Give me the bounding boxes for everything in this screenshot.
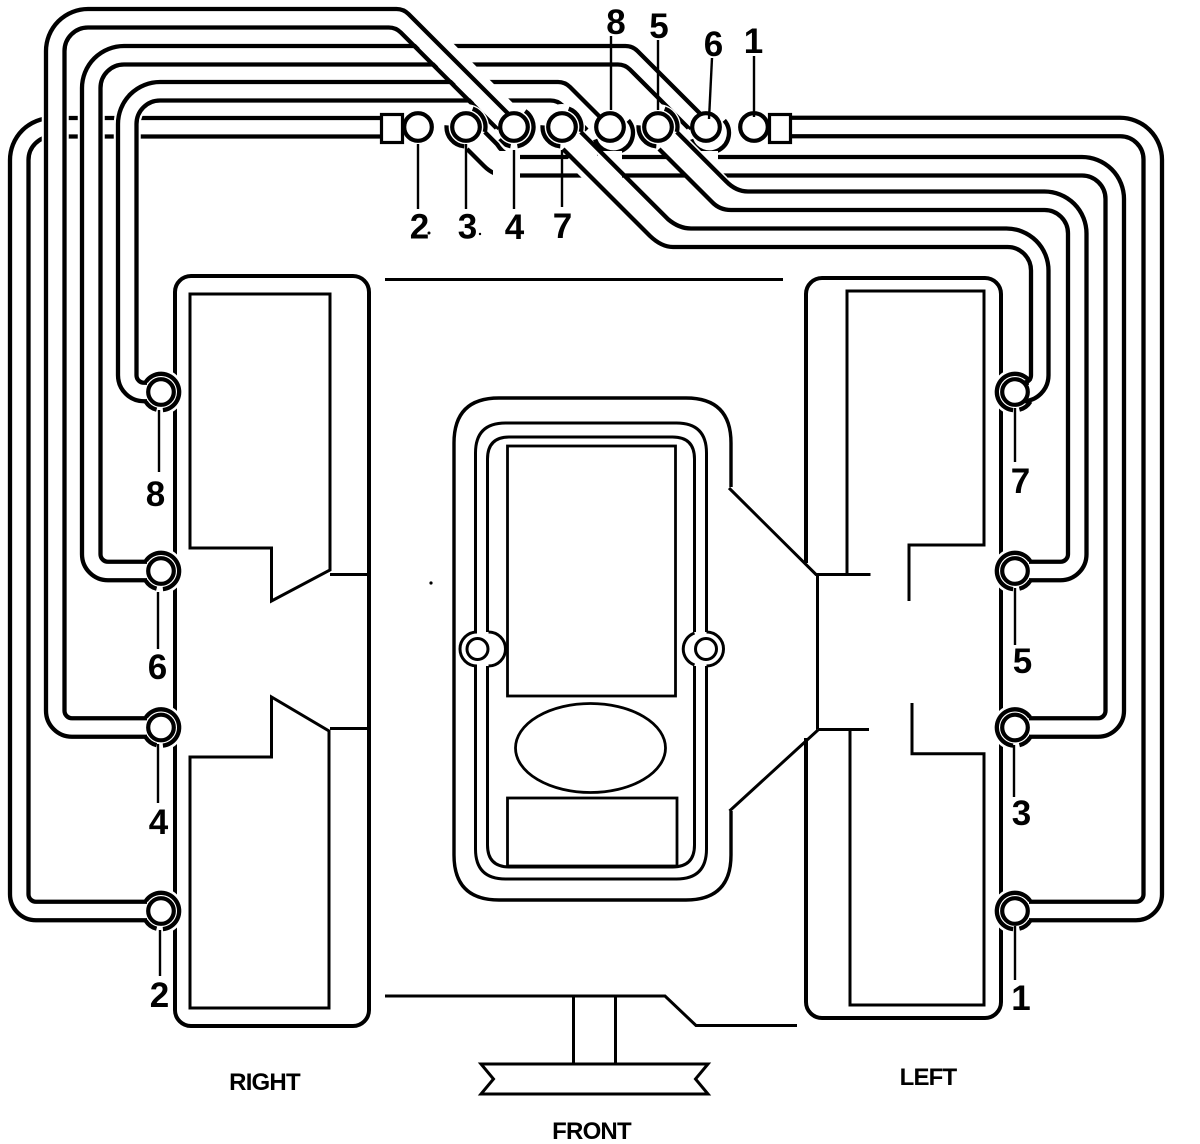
leader terminal 5 (657, 40, 659, 110)
leader plug 7 (1014, 408, 1016, 462)
svg-text:4: 4 (149, 803, 169, 842)
left bank edge gap (800, 563, 812, 738)
wire 2 (terminal 2 to plug 2) (19, 127, 400, 911)
bolt hole left (467, 639, 488, 660)
leader terminal 3 (465, 144, 467, 209)
terminal 2 tower (404, 113, 432, 141)
svg-text:7: 7 (1011, 462, 1030, 501)
svg-text:8: 8 (146, 475, 165, 514)
svg-text:2: 2 (150, 976, 169, 1015)
svg-text:1: 1 (1011, 979, 1030, 1018)
oil filler ellipse (516, 704, 666, 793)
svg-text:6: 6 (704, 25, 723, 64)
wire 4 (terminal 4 to plug 4) (55, 18, 505, 727)
left cylinder bank (LEFT) outline (806, 278, 1001, 1018)
top engine line (385, 278, 783, 281)
svg-text:5: 5 (1013, 642, 1032, 681)
cover top inner rectangle (508, 446, 676, 696)
leader plug 6 (157, 592, 159, 649)
crank pulley banner (481, 1064, 708, 1094)
terminal 1 connector (770, 115, 791, 143)
svg-text:3: 3 (458, 208, 477, 247)
leader plug 3 (1013, 745, 1015, 797)
svg-text:8: 8 (606, 3, 625, 42)
terminal 4 tower (500, 113, 528, 141)
terminal 6 tower (692, 113, 720, 141)
wire 5 (terminal 5 to plug 5) (669, 138, 1077, 571)
svg-text:FRONT: FRONT (552, 1118, 632, 1144)
leader terminal 8 (610, 36, 612, 110)
leader plug 2 (159, 930, 161, 976)
leader plug 5 (1014, 588, 1016, 645)
terminal 2 connector (382, 115, 403, 143)
right cylinder bank (RIGHT) outline (175, 276, 369, 1026)
wire 3 (terminal 3 to plug 3) (477, 138, 1115, 728)
terminal 5 tower (644, 113, 672, 141)
bottom engine line (385, 996, 797, 1026)
leader plug 4 (157, 744, 159, 803)
spark plug 6 (left) (148, 558, 174, 584)
terminal 8 tower (596, 113, 624, 141)
leader terminal 6 (709, 58, 712, 119)
svg-text:5: 5 (649, 7, 668, 46)
wire 6 (terminal 6 to plug 6) (91, 55, 697, 571)
noise dot (429, 581, 432, 584)
spark plug 7 (right) (1002, 379, 1028, 405)
boot notches (493, 151, 520, 179)
leader terminal 1 (753, 56, 755, 117)
wire 7 (terminal 7 to plug 7) (575, 152, 1040, 392)
svg-text:4: 4 (505, 208, 525, 247)
spark plug 5 (right) (1002, 558, 1028, 584)
valley cover outer outline (454, 398, 731, 900)
spark plug 2 (left) (148, 898, 174, 924)
spark plug 1 (right) (1002, 898, 1028, 924)
spark plug 3 (right) (1002, 715, 1028, 741)
svg-text:3: 3 (1012, 794, 1031, 833)
leader plug 8 (158, 410, 160, 472)
svg-text:7: 7 (553, 207, 572, 246)
valley cover gasket outer line (460, 423, 724, 879)
terminal 1 tower (740, 113, 768, 141)
wire 8 (terminal 8 to plug 8) (127, 91, 598, 392)
svg-text:2: 2 (410, 208, 429, 247)
svg-text:LEFT: LEFT (900, 1064, 958, 1091)
leader terminal 4 (513, 150, 515, 209)
svg-text:1: 1 (744, 22, 763, 61)
engine block bulge (right of valley cover) (729, 488, 871, 811)
leader plug 1 (1014, 926, 1016, 980)
cover bottom inner rectangle (508, 798, 678, 866)
spark plug 4 (left) (148, 715, 174, 741)
wire 1 (terminal 1 to plug 1) (789, 127, 1153, 911)
valley cover gasket inner line (488, 437, 695, 867)
terminal 7 tower (548, 113, 576, 141)
leader terminal 7 (561, 150, 563, 207)
svg-text:6: 6 (148, 648, 167, 687)
spark plug 8 (left) (148, 379, 174, 405)
bolt hole right (696, 639, 717, 660)
leader terminal 2 (417, 144, 419, 209)
crank snout (574, 997, 616, 1063)
svg-text:RIGHT: RIGHT (229, 1069, 301, 1096)
terminal 3 tower (452, 113, 480, 141)
